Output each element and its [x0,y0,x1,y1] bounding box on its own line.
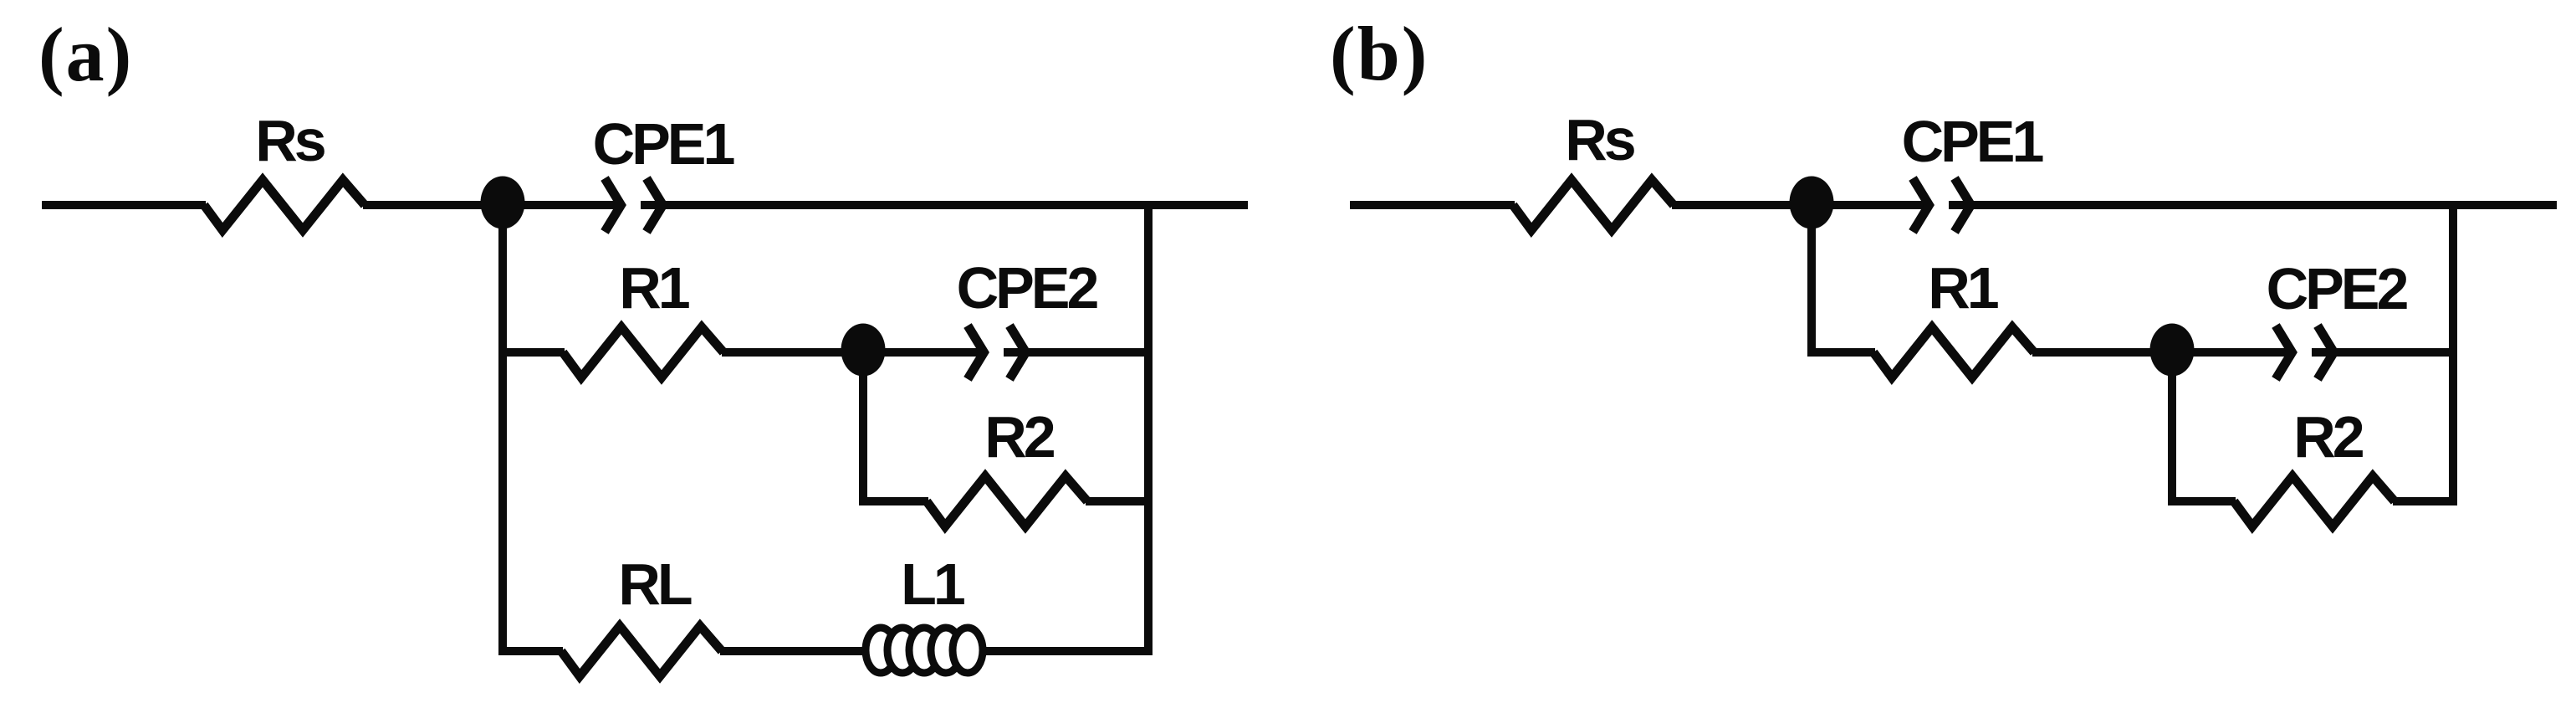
svg-text:(b): (b) [1330,11,1429,96]
wire: (b) R1 branch left [1807,348,1875,357]
wire: (a) R1 branch left [498,348,565,357]
wire: (a) left lead [42,201,206,209]
svg-text:RL: RL [618,552,692,617]
svg-text:R2: R2 [984,404,1055,470]
svg-text:L1: L1 [901,552,964,617]
wire: (b) left lead [1350,201,1515,209]
wire: (a) R2 branch left [859,497,928,505]
wire: (a) Rs to CPE1 [363,201,623,209]
svg-text:R1: R1 [619,255,689,321]
CPE1 (a) chevron 1 [605,178,621,232]
wire: (a) bottom branch left [498,647,563,655]
svg-text:R1: R1 [1928,255,1998,321]
wire: (b) R1 to CPE2 [2032,348,2294,357]
CPE2 (a) chevron 2 [1009,326,1026,379]
wire: (b) node2 vertical drop [2168,350,2176,505]
wire: (b) node1 vertical drop [1807,203,1816,357]
node 1 (b) junction dot [1790,177,1834,229]
svg-text:(a): (a) [38,12,133,97]
resistor R2 (a) zigzag [927,476,1087,526]
wire: (b) Rs to CPE1 [1672,201,1931,209]
wire: (b) R2 to right rail [2393,497,2457,505]
CPE2 (b) chevron 2 [2318,326,2334,379]
wire: (a) top right [641,201,1248,209]
inductor L1 coil ring 3 [909,628,939,673]
wire: (b) R2 branch left [2168,497,2236,505]
node 2 (a) junction dot [841,324,886,377]
inductor L1 coil ring 5 [953,628,983,673]
wire: (a) R2 to right rail [1086,497,1153,505]
resistor R1 (b) zigzag [1873,327,2034,377]
CPE2 (a) chevron 1 [968,326,984,379]
wire: (a) R1 to CPE2 [722,348,986,357]
wire: (b) CPE2 to right rail [2312,348,2457,357]
CPE2 (b) chevron 1 [2276,326,2292,379]
resistor R1 (a) zigzag [563,327,723,377]
wire: (a) node1 vertical drop [498,203,507,655]
resistor Rs (b) zigzag [1513,180,1674,230]
CPE1 (b) chevron 1 [1913,178,1929,232]
resistor R2 (b) zigzag [2234,476,2395,526]
CPE1 (a) chevron 2 [647,178,663,232]
inductor L1 coil ring 4 [931,628,961,673]
wire: (a) right rail vertical [1144,201,1153,655]
node 1 (a) junction dot [481,177,525,229]
svg-text:Rs: Rs [1565,107,1635,172]
wire: (b) top right [1949,201,2557,209]
svg-text:CPE2: CPE2 [2267,256,2408,321]
svg-text:Rs: Rs [255,108,325,173]
wire: (b) right rail vertical [2449,201,2457,505]
CPE1 (b) chevron 2 [1955,178,1971,232]
inductor L1 coil ring 2 [887,628,917,673]
resistor Rs (a) zigzag [204,180,365,230]
inductor L1 coil ring 1 [866,628,896,673]
svg-text:CPE2: CPE2 [957,255,1098,321]
svg-text:R2: R2 [2293,404,2364,470]
wire: (a) CPE2 to right rail [1004,348,1153,357]
wire: (a) node2 vertical drop [859,350,867,505]
svg-text:CPE1: CPE1 [593,111,734,177]
wire: (a) bottom branch right [720,647,1153,655]
svg-text:CPE1: CPE1 [1902,109,2043,174]
resistor RL zigzag [561,626,722,676]
node 2 (b) junction dot [2150,324,2195,377]
